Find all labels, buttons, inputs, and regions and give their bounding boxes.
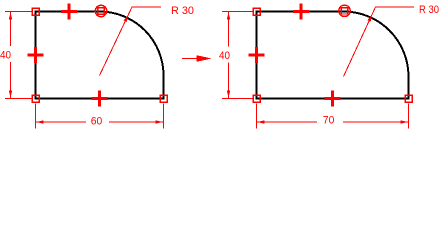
- svg-text:70: 70: [323, 115, 335, 127]
- svg-text:60: 60: [91, 116, 103, 128]
- svg-text:40: 40: [219, 50, 230, 62]
- svg-text:R 30: R 30: [171, 5, 194, 17]
- svg-text:R 30: R 30: [419, 4, 439, 16]
- svg-text:40: 40: [0, 50, 11, 62]
